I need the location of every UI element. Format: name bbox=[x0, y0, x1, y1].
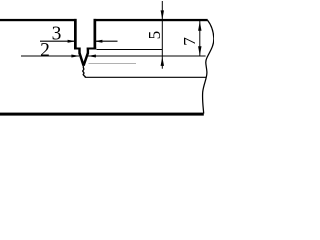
dim line 2 right segment, continues to break bbox=[88, 55, 206, 57]
bottom thick line bbox=[0, 113, 204, 116]
bevel right bbox=[84, 53, 88, 66]
svg-text:3: 3 bbox=[52, 24, 62, 45]
apex point bbox=[83, 63, 85, 66]
svg-text:7: 7 bbox=[180, 37, 199, 46]
bevel left bbox=[80, 53, 84, 66]
left piece right end face bbox=[74, 19, 77, 50]
root break squiggle bbox=[83, 66, 86, 77]
dim line 3 right segment bbox=[95, 40, 118, 42]
step extension line bbox=[97, 49, 163, 51]
left step edge bbox=[74, 48, 81, 50]
right step edge bbox=[87, 48, 96, 50]
arrow 7 bottom (inside pointing down) bbox=[198, 46, 201, 56]
slot left face bbox=[78, 48, 80, 54]
arrow 5 bottom (below line pointing up) bbox=[161, 57, 164, 66]
top surface right plate bbox=[94, 19, 208, 21]
arrow 7 top (inside pointing up) bbox=[198, 21, 201, 31]
slot right face bbox=[87, 48, 89, 54]
dim line 2 left segment bbox=[21, 55, 79, 57]
dim line 5 vertical bbox=[161, 1, 163, 69]
svg-text:5: 5 bbox=[145, 31, 164, 40]
arrow 5 top (above surface pointing down) bbox=[161, 10, 164, 19]
break wavy line right bbox=[203, 20, 214, 113]
svg-text:2: 2 bbox=[40, 40, 50, 61]
right piece left end face bbox=[94, 19, 97, 50]
dim line 3 left segment bbox=[40, 40, 76, 42]
arrow 3 right bbox=[94, 40, 102, 43]
top surface left plate bbox=[0, 19, 77, 21]
faint seat ghost line bbox=[89, 62, 137, 64]
arrow 2 left bbox=[71, 55, 79, 58]
dim line 7 vertical bbox=[199, 21, 201, 57]
arrow 2 right bbox=[88, 55, 96, 58]
arrow 3 left bbox=[68, 40, 76, 43]
lip bottom line bbox=[85, 76, 207, 78]
